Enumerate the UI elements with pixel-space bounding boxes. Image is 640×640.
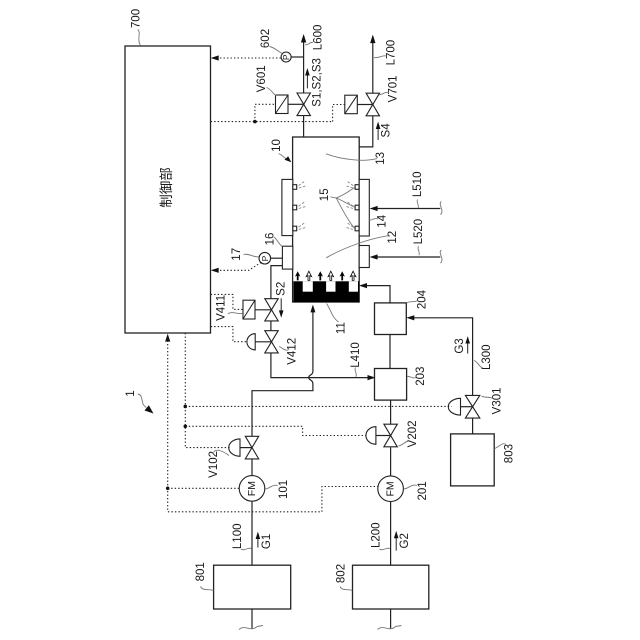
flow meter FM 201 <box>378 476 404 502</box>
label 801 <box>195 562 213 590</box>
valve V202 <box>384 424 397 447</box>
nozzle left 1 <box>293 185 297 190</box>
label V102 <box>208 450 229 478</box>
valve V102 <box>245 436 258 459</box>
svg-text:V102: V102 <box>208 451 220 478</box>
label 17 <box>231 248 259 261</box>
wire V102 to FM101 <box>251 459 253 476</box>
wire 204 to chamber comb <box>361 286 390 303</box>
svg-text:204: 204 <box>417 289 429 309</box>
svg-text:V601: V601 <box>256 65 268 92</box>
svg-text:S4: S4 <box>381 123 393 138</box>
susceptor comb 11 (black) <box>293 281 359 302</box>
svg-text:17: 17 <box>231 248 243 261</box>
label 602 <box>260 29 282 53</box>
dashed: gauge17 to control box <box>211 263 261 273</box>
svg-text:802: 802 <box>335 564 347 583</box>
svg-text:V301: V301 <box>492 387 504 414</box>
label 11 <box>327 304 348 335</box>
svg-text:制御部: 制御部 <box>159 167 174 208</box>
svg-text:201: 201 <box>417 481 429 500</box>
label 10 <box>271 139 292 162</box>
dashed: gauge602 to control box <box>211 55 281 60</box>
svg-text:16: 16 <box>265 233 277 246</box>
label 13 <box>326 152 387 165</box>
label L410 <box>350 342 362 377</box>
wire S4 from chamber right wall <box>359 116 373 147</box>
spray right 1 <box>346 181 353 188</box>
spray left 3 <box>299 223 306 230</box>
box 203 <box>375 369 407 401</box>
label L100 <box>232 524 251 550</box>
svg-text:P: P <box>281 54 291 60</box>
wire L200 <box>390 502 392 566</box>
valve V301 <box>465 395 479 418</box>
dashed: control bus B to valves <box>184 333 452 448</box>
svg-text:V411: V411 <box>215 295 227 321</box>
gauge P 602 <box>281 52 304 62</box>
spray left 1 <box>299 181 306 188</box>
wire V202 to 203 <box>390 400 392 424</box>
valve V601 <box>297 93 310 116</box>
label 700 <box>130 9 142 46</box>
wire exhaust from port 16 <box>271 266 283 299</box>
flow arrow G1 <box>256 532 261 548</box>
wire 803 to V301 <box>472 418 474 434</box>
label 204 <box>407 289 429 309</box>
svg-text:S2: S2 <box>276 282 288 296</box>
valve V411 <box>265 299 278 321</box>
label L700 <box>374 40 398 66</box>
svg-text:G1: G1 <box>261 534 273 549</box>
label 14 <box>369 214 388 227</box>
gas flow arrows above comb <box>295 271 356 280</box>
svg-text:L100: L100 <box>232 524 244 550</box>
chamber right upper port block 14 <box>359 179 369 236</box>
label V301 <box>482 387 504 414</box>
svg-text:P: P <box>260 255 270 261</box>
label 15 <box>319 187 355 228</box>
svg-text:V701: V701 <box>387 75 399 102</box>
svg-text:11: 11 <box>336 322 348 334</box>
chamber left lower port block 16 <box>282 246 292 269</box>
flow arrow S1,S2,S3 <box>305 68 310 88</box>
label L300 <box>474 344 493 370</box>
wire between V411 and V412 <box>270 321 272 331</box>
wire below 802 with break <box>378 609 402 630</box>
svg-text:10: 10 <box>271 139 283 152</box>
svg-text:203: 203 <box>415 367 427 386</box>
dashed: control to V411 <box>211 294 243 309</box>
svg-text:L200: L200 <box>371 522 383 548</box>
flow meter FM 101 <box>239 476 265 502</box>
nozzle right 3 <box>355 226 359 231</box>
wire FM201 to V202 <box>390 448 392 476</box>
dashed: control bus A to flow meters <box>165 334 378 512</box>
svg-text:FM: FM <box>246 481 258 496</box>
svg-text:14: 14 <box>377 214 389 227</box>
svg-text:101: 101 <box>278 480 290 499</box>
flow arrow S4 <box>376 122 381 140</box>
label L200 <box>371 522 390 549</box>
label 101 <box>265 480 290 499</box>
valve V701 <box>366 93 379 116</box>
gas source box 801 <box>214 565 291 609</box>
actuator dome of V301 <box>448 398 472 415</box>
label 16 <box>265 233 282 247</box>
label L510 <box>412 172 424 209</box>
gauge P 17 <box>259 252 282 264</box>
label L520 <box>413 219 425 255</box>
svg-text:L520: L520 <box>413 219 425 245</box>
nozzle right 1 <box>355 185 359 190</box>
control unit box 700 <box>125 46 211 333</box>
arrow L510 into port 14 <box>370 202 442 215</box>
flow arrow G2 <box>394 531 399 551</box>
label 803 <box>494 444 515 464</box>
svg-text:FM: FM <box>385 481 397 496</box>
actuator dome of V412 <box>247 334 271 350</box>
dashed: control to V601/V701 <box>211 104 345 123</box>
wire below 801 with break <box>239 609 263 630</box>
svg-text:801: 801 <box>195 562 207 581</box>
actuator of V701 <box>345 95 373 114</box>
label V601 <box>256 65 276 95</box>
svg-text:G3: G3 <box>454 338 466 353</box>
chamber 10 <box>293 137 360 302</box>
svg-text:L600: L600 <box>312 25 324 51</box>
svg-text:700: 700 <box>130 9 142 28</box>
arrow L520 into lower right port <box>370 250 442 263</box>
svg-text:1: 1 <box>125 390 137 396</box>
flow arrow S2 <box>279 298 284 318</box>
label 201 <box>404 481 429 500</box>
box 204 <box>375 303 407 335</box>
wire L100 <box>251 501 253 565</box>
wire L600 riser from chamber top <box>303 116 305 137</box>
svg-text:15: 15 <box>319 188 331 201</box>
svg-text:L410: L410 <box>350 342 362 368</box>
wire gas1 into chamber bottom <box>252 305 315 437</box>
nozzle left 2 <box>293 205 297 210</box>
flow arrow G3 <box>465 336 470 353</box>
label L600 <box>305 25 324 51</box>
label V701 <box>379 75 399 102</box>
wire L700 above valve <box>372 36 374 93</box>
arrow L700 out <box>370 35 375 44</box>
box 802 <box>353 565 429 609</box>
chamber left upper port block <box>282 179 293 235</box>
svg-text:S1,S2,S3: S1,S2,S3 <box>312 58 324 107</box>
arrow L600 out <box>301 34 306 43</box>
actuator dome of V102 <box>229 439 252 456</box>
svg-text:602: 602 <box>260 29 272 48</box>
svg-text:L300: L300 <box>481 344 493 370</box>
wire L300 from V301 to box 204 <box>409 318 473 396</box>
nozzle right 2 <box>355 205 359 210</box>
actuator of V601 <box>276 95 304 114</box>
actuator of V411 <box>243 300 271 319</box>
label V412 <box>279 338 299 365</box>
chamber right lower port block <box>359 246 369 268</box>
label 203 <box>407 367 427 386</box>
label 802 <box>335 564 352 591</box>
wire 203 to 204 <box>389 335 391 369</box>
spray left 2 <box>299 202 306 209</box>
spray right 3 <box>346 223 353 230</box>
svg-text:803: 803 <box>504 444 516 463</box>
valve V412 <box>265 331 278 353</box>
svg-text:V412: V412 <box>287 338 299 365</box>
gas source box 803 <box>451 434 495 486</box>
nozzle left 3 <box>293 226 297 231</box>
svg-text:G2: G2 <box>399 533 411 548</box>
svg-text:13: 13 <box>375 152 387 165</box>
svg-text:L510: L510 <box>412 172 424 198</box>
svg-text:12: 12 <box>387 231 399 244</box>
spray right 2 <box>346 202 353 209</box>
label V411 <box>215 295 242 321</box>
svg-text:V202: V202 <box>407 420 419 447</box>
svg-text:L700: L700 <box>386 40 398 66</box>
wire L410 from V412 to box 203 <box>271 353 373 378</box>
label 1 with arrow <box>125 390 154 413</box>
dashed: control to V412 <box>211 327 246 342</box>
actuator dome of V202 <box>366 427 390 445</box>
wire L600 above valve <box>303 36 305 93</box>
label V202 <box>399 420 420 447</box>
label 12 <box>326 231 399 258</box>
